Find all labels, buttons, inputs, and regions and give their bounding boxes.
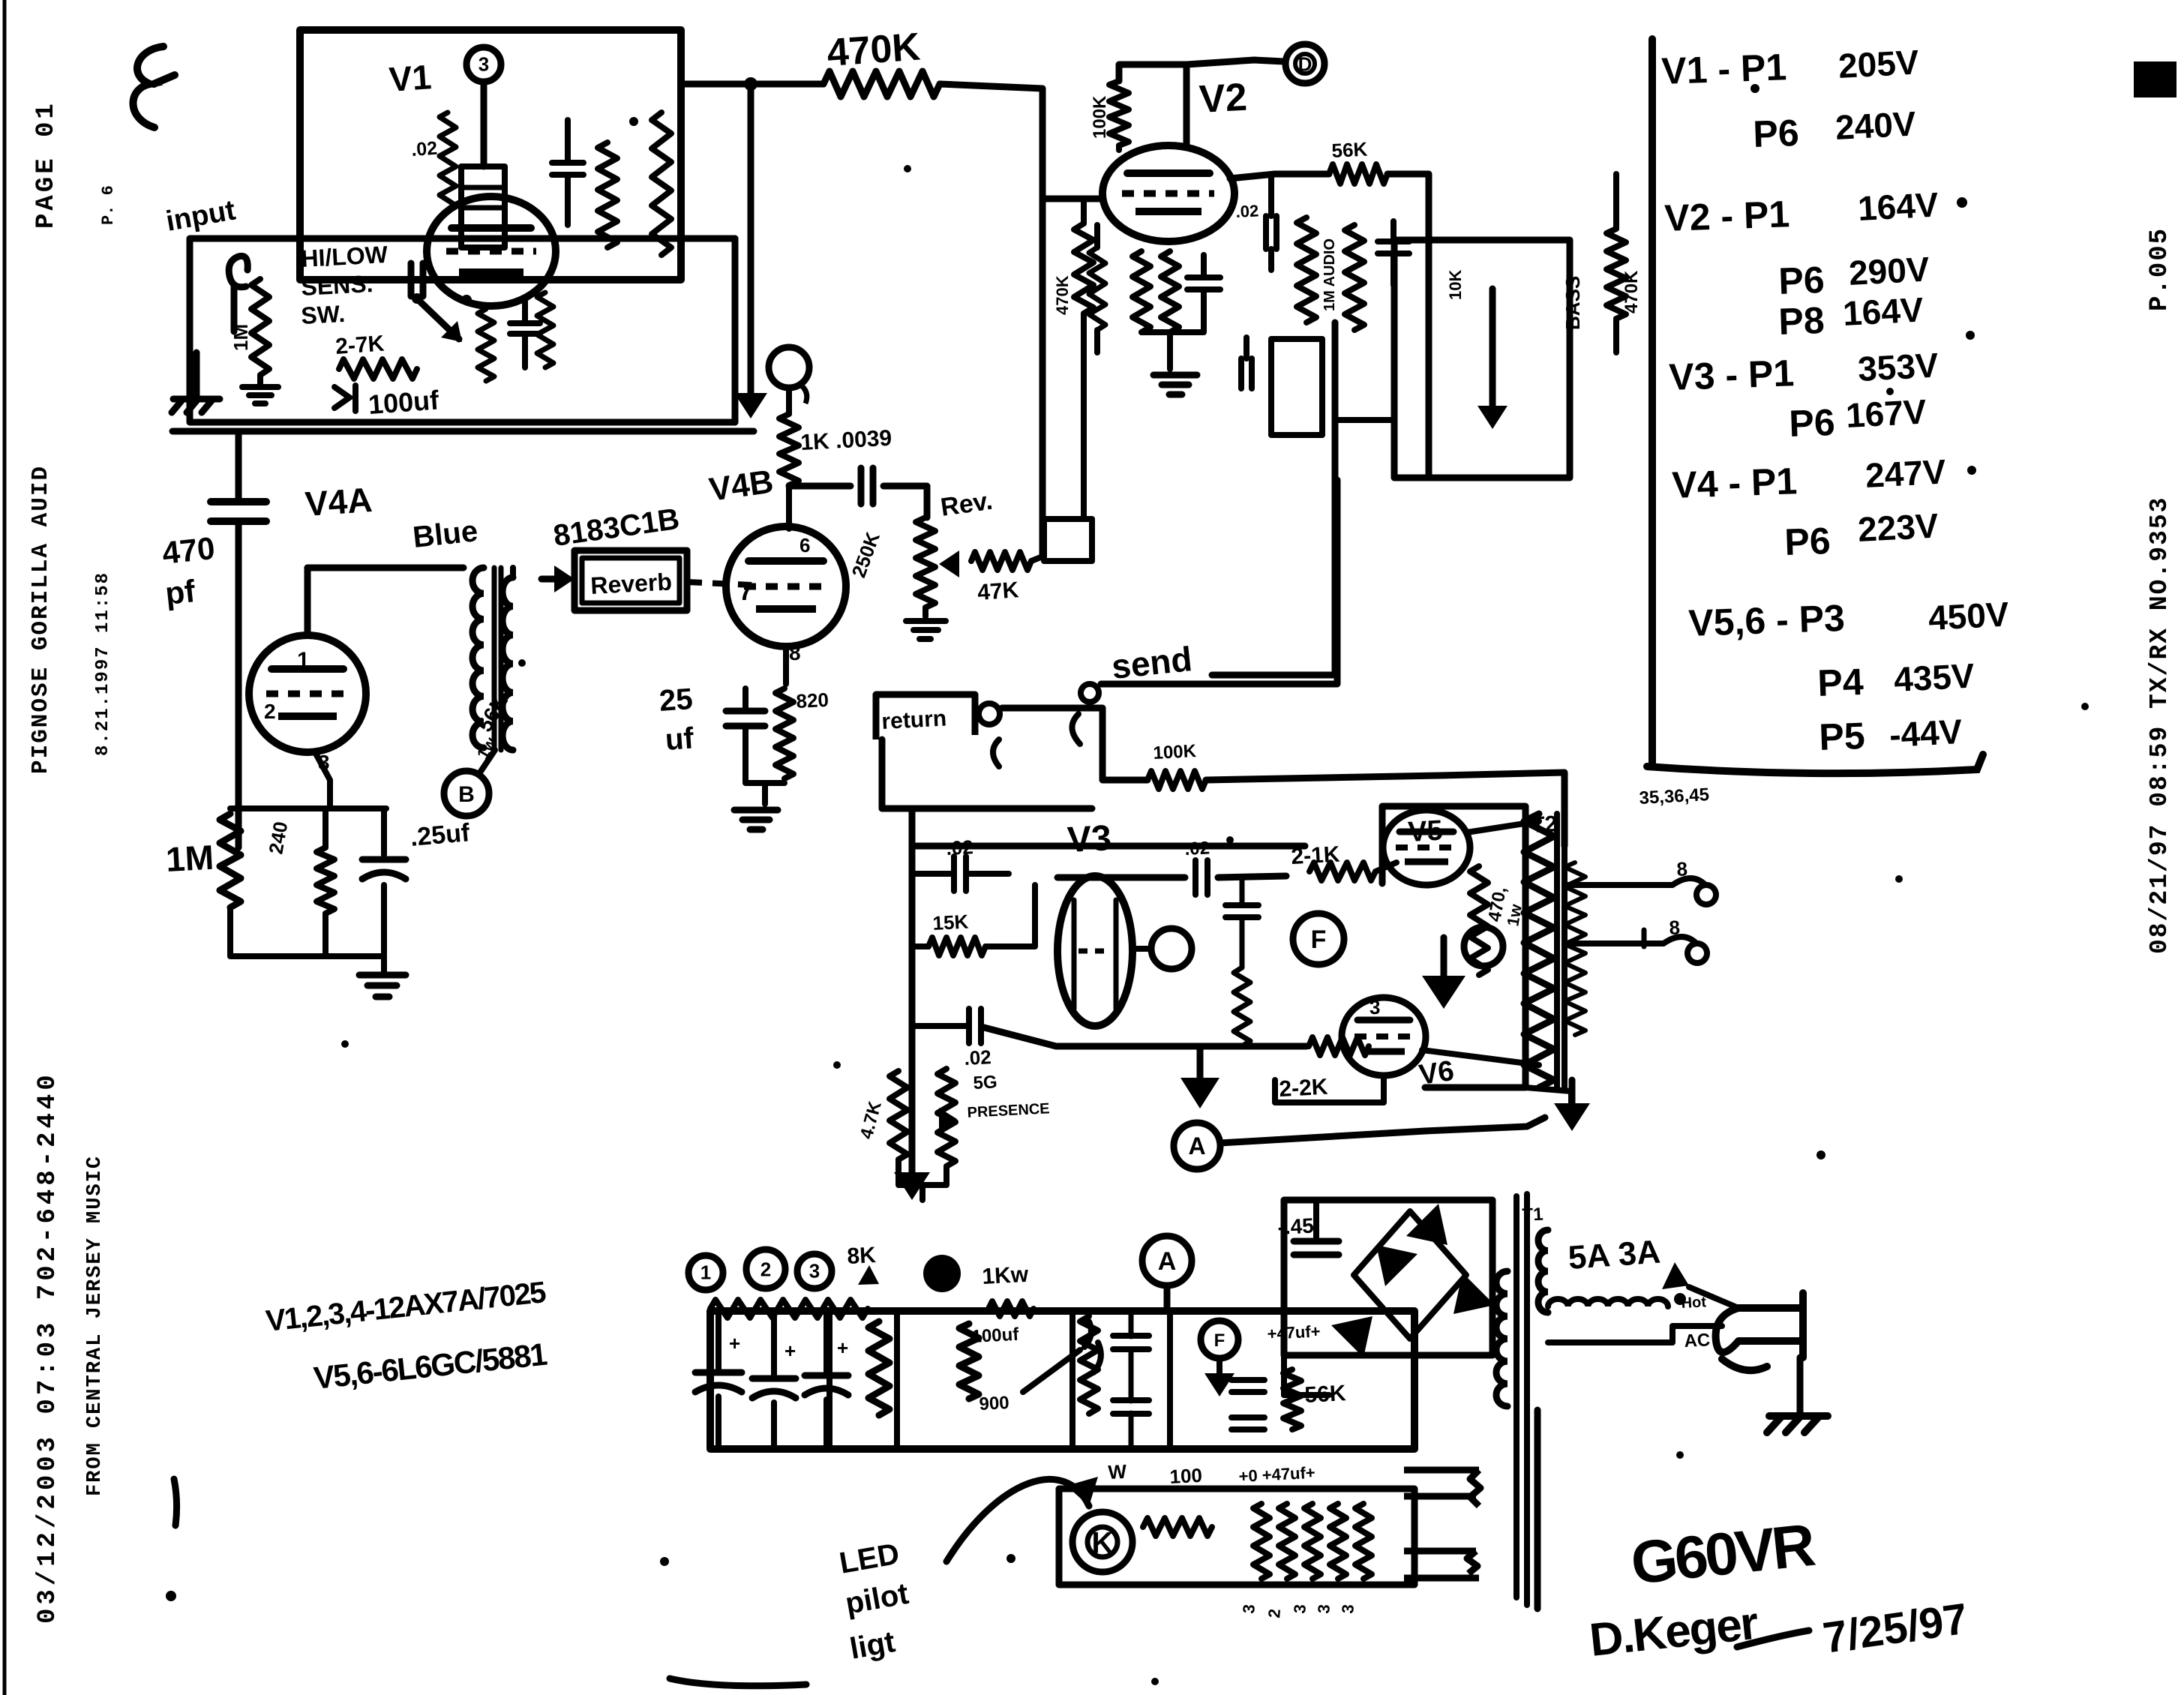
sens switch — [412, 293, 472, 342]
V4B cathode — [783, 646, 789, 684]
svg-text:return: return — [881, 706, 947, 733]
svg-text:-.45: -.45 — [1277, 1214, 1315, 1239]
filter divider 2 — [894, 1311, 900, 1447]
bottom scribble — [670, 1678, 806, 1686]
filter resistor R3 — [1080, 1316, 1098, 1414]
mid pot wiper — [1477, 289, 1507, 429]
svg-text:100K: 100K — [1090, 95, 1110, 139]
AC plug — [1716, 1293, 1803, 1370]
svg-text:F: F — [1311, 925, 1327, 954]
wire box to bridge — [1411, 1396, 1418, 1444]
svg-text:uf: uf — [664, 721, 695, 757]
page left border — [3, 0, 7, 1695]
transformer Blue label — [411, 514, 479, 554]
svg-text:PIGNOSE GORILLA AUID: PIGNOSE GORILLA AUID — [28, 465, 54, 774]
svg-text:+: + — [837, 1336, 848, 1359]
label T2 — [1531, 811, 1558, 838]
T1 primary winding — [1496, 1271, 1507, 1406]
resistor 1M v4a — [220, 814, 241, 907]
filter resistor R1 — [868, 1321, 889, 1415]
label 8K — [847, 1243, 879, 1285]
return jack — [979, 703, 1000, 766]
label 470K — [826, 25, 922, 75]
svg-text:08/21/97 08:59 TX/RX NO.: 08/21/97 08:59 TX/RX NO.9353 — [2146, 496, 2173, 955]
svg-text:2: 2 — [760, 1258, 771, 1280]
label pin6 v4b — [799, 534, 810, 556]
svg-text:3: 3 — [478, 52, 489, 75]
label 470/1w — [1484, 885, 1525, 928]
ground input jack (hatched) — [172, 399, 220, 412]
V1 pin 3 jack circle — [466, 47, 501, 166]
label 2-2K — [1279, 1075, 1329, 1102]
resistor 56K ps — [1283, 1369, 1301, 1429]
filter divider 1 — [826, 1311, 832, 1447]
label pin2 V4A — [264, 700, 276, 723]
reverb box — [574, 550, 687, 610]
doubler row resistor chain — [710, 1300, 1033, 1318]
svg-text:W: W — [1108, 1460, 1128, 1483]
wire K to tube — [786, 485, 792, 529]
input coupling box — [190, 238, 735, 422]
resistor rev mix — [1074, 199, 1093, 519]
tone pots box — [1394, 240, 1570, 478]
reverb arrow in — [541, 565, 574, 592]
svg-text:P.005: P.005 — [2146, 227, 2174, 311]
label 47K — [976, 577, 1020, 605]
filter divider 3 — [1069, 1311, 1075, 1447]
wire plate node to right — [1387, 174, 1429, 478]
wire v3 to v5 grid — [1057, 838, 1286, 895]
ground v4b — [734, 810, 778, 829]
svg-text:100: 100 — [1169, 1464, 1203, 1488]
V5 box — [1382, 806, 1525, 1087]
label 25uf — [658, 682, 695, 757]
T2 core — [1557, 814, 1564, 1087]
cap -.45 — [1277, 1200, 1339, 1255]
label 100uf — [367, 384, 441, 420]
wire tone out down — [1212, 322, 1335, 675]
V1 cathode network — [478, 300, 540, 381]
vol cap — [1241, 337, 1252, 388]
svg-text:pf: pf — [163, 573, 197, 611]
label AC — [1684, 1330, 1711, 1351]
resistor 100 pilot — [1143, 1518, 1212, 1536]
stray mark bottom-left — [166, 1479, 177, 1601]
wire presence gnd — [919, 1185, 925, 1200]
tube list line 2 — [312, 1336, 549, 1396]
label 8183C1B — [551, 502, 681, 553]
fax footer P.005 — [2146, 227, 2174, 311]
svg-text:V3 - P1: V3 - P1 — [1668, 352, 1795, 398]
svg-text:Hot: Hot — [1681, 1294, 1707, 1312]
svg-text:10K: 10K — [1446, 270, 1465, 300]
svg-text:B: B — [458, 782, 475, 807]
signature date — [1820, 1594, 1971, 1663]
screen resistor — [1470, 866, 1488, 975]
svg-text:FROM CENTRAL JERSEY MUSIC: FROM CENTRAL JERSEY MUSIC — [84, 1155, 106, 1496]
svg-text:HI/LOW: HI/LOW — [300, 241, 388, 272]
label .02 v3a — [946, 835, 974, 859]
label +47uf — [1267, 1321, 1321, 1343]
wire v3 left — [912, 808, 1092, 1183]
label 1M AUDIO — [1321, 238, 1338, 311]
filter cap pair right — [1113, 1311, 1149, 1447]
svg-text:8.21.1997 11:58: 8.21.1997 11:58 — [93, 571, 113, 756]
svg-text:P6: P6 — [1752, 112, 1799, 155]
svg-text:V4A: V4A — [304, 480, 373, 523]
svg-text:P. 6: P. 6 — [99, 185, 118, 225]
svg-text:3: 3 — [1338, 1603, 1357, 1614]
svg-text:35,36,45: 35,36,45 — [1639, 784, 1710, 808]
svg-text:205V: 205V — [1837, 42, 1920, 85]
label .25uf — [409, 818, 471, 852]
reverb transformer primary — [472, 568, 484, 748]
V1 plate resistor right — [598, 142, 617, 247]
svg-text:+0 +47uf+: +0 +47uf+ — [1238, 1463, 1315, 1486]
svg-text:.02: .02 — [1235, 201, 1259, 221]
heater resistor bank — [1253, 1504, 1372, 1579]
slope resistor — [1297, 217, 1316, 322]
svg-text:223V: 223V — [1857, 505, 1939, 549]
tube V1 — [427, 196, 556, 306]
mid resistor — [1345, 225, 1364, 330]
label 100K V2 — [1090, 95, 1110, 139]
return jack box — [876, 694, 975, 739]
screen arrow — [1422, 937, 1465, 1009]
svg-text:56K: 56K — [1304, 1381, 1347, 1408]
svg-text:3: 3 — [1369, 996, 1380, 1018]
cap .25uf — [362, 808, 406, 954]
svg-text:15K: 15K — [932, 910, 969, 934]
wire A ps down — [1164, 1285, 1171, 1308]
pin circle F2 — [1201, 1321, 1238, 1358]
label K .0039 — [800, 426, 892, 455]
svg-text:.02: .02 — [1184, 838, 1210, 859]
input resistor 1M — [251, 279, 269, 384]
V1 coupling cap — [411, 263, 423, 296]
svg-text:P6: P6 — [1783, 520, 1831, 563]
svg-text:1K .0039: 1K .0039 — [800, 426, 892, 455]
svg-text:1M: 1M — [229, 324, 252, 351]
ground arrow v3 — [894, 1172, 930, 1200]
svg-text:P4: P4 — [1816, 661, 1864, 704]
svg-text:AC: AC — [1684, 1330, 1711, 1351]
wire v6 grid — [984, 877, 1306, 1108]
T2 secondary winding — [1564, 862, 1585, 1035]
resistor 4.7K — [889, 1071, 907, 1159]
label pin3 V4A — [318, 751, 330, 774]
svg-text:3: 3 — [1314, 1603, 1333, 1614]
filter cap C3 — [805, 1311, 848, 1447]
wire return down — [882, 739, 912, 808]
pin circle F — [1293, 913, 1344, 964]
svg-text:V5: V5 — [1407, 815, 1444, 848]
label T1 — [1522, 1204, 1543, 1225]
heater box — [1059, 1489, 1414, 1585]
heater bank labels — [1239, 1603, 1357, 1618]
wire bottom bus — [172, 428, 754, 435]
label Rev. — [939, 487, 994, 522]
svg-text:V4 - P1: V4 - P1 — [1671, 460, 1798, 506]
svg-text:164V: 164V — [1857, 184, 1939, 228]
wire V2 plate out — [1230, 174, 1329, 178]
V4A pin1 wire — [307, 568, 463, 635]
svg-text:900: 900 — [979, 1393, 1009, 1414]
svg-text:100uf: 100uf — [367, 384, 441, 420]
label V6 — [1417, 1055, 1456, 1091]
resistor 56K plate — [1329, 164, 1387, 184]
rev pot wiper arrow — [939, 550, 959, 577]
resistor 470K tone — [1606, 174, 1626, 352]
label 10K MID — [1446, 270, 1465, 300]
label 5A 3A — [1567, 1234, 1661, 1276]
svg-text:V6: V6 — [1417, 1055, 1456, 1091]
svg-text:-44V: -44V — [1888, 712, 1963, 754]
wire v4a cathode bus — [230, 805, 386, 811]
pilot lamp K — [1072, 1512, 1132, 1572]
heater plug — [1404, 1470, 1480, 1578]
wire B+ down — [748, 84, 754, 409]
svg-text:2: 2 — [264, 700, 276, 723]
label 4.7K — [856, 1099, 886, 1141]
wire plug lower — [1548, 1326, 1722, 1342]
label pin1 V4A — [297, 648, 310, 673]
signature D Keger — [1587, 1597, 1809, 1666]
wire reverb to pin7 — [687, 582, 751, 585]
svg-text:Blue: Blue — [411, 514, 479, 554]
svg-text:V3: V3 — [1066, 818, 1112, 860]
fax footer PAGE 01 — [32, 100, 61, 229]
svg-text:V2: V2 — [1198, 76, 1249, 121]
label rev mix — [1053, 275, 1072, 315]
svg-text:P6: P6 — [1788, 401, 1835, 445]
wire v4a bottom — [230, 907, 384, 956]
label pin8 — [789, 641, 801, 664]
svg-text:Reverb: Reverb — [589, 568, 672, 599]
label .02 v3b — [964, 1045, 992, 1069]
ground rev pot — [906, 621, 946, 639]
V2 cathode resistor — [1132, 251, 1150, 332]
wire input box bottom — [193, 352, 200, 397]
label V3 — [1066, 818, 1112, 860]
label Hot — [1681, 1294, 1707, 1312]
wire 470K to V2 grid — [940, 84, 1042, 556]
svg-text:240V: 240V — [1834, 103, 1917, 147]
fax header 03/12/2003 07:03 702-648-2440 — [34, 1071, 62, 1624]
fuse chain — [1548, 1262, 1738, 1308]
tube V4B — [726, 526, 846, 646]
V1 plate ladder — [461, 166, 505, 247]
paper specks — [341, 84, 2089, 1685]
svg-text:V5,6 - P3: V5,6 - P3 — [1687, 597, 1845, 644]
label Reverb — [589, 568, 672, 599]
reverb transformer core — [494, 568, 501, 750]
resistor 2.2K — [1309, 1037, 1369, 1055]
label 56K B — [472, 691, 512, 762]
wire fx to v5 grid — [1206, 772, 1564, 846]
fax footer PIGNOSE GORILLA AUID — [28, 465, 54, 774]
label send — [1110, 639, 1194, 686]
label LED pilot ligt — [837, 1537, 911, 1666]
label input — [163, 194, 238, 238]
svg-text:450V: 450V — [1927, 594, 2010, 637]
svg-text:5G: 5G — [973, 1072, 997, 1093]
label 1M — [165, 838, 215, 879]
svg-text:.02: .02 — [946, 835, 974, 859]
svg-text:A: A — [1158, 1247, 1177, 1276]
wire return right — [1002, 708, 1147, 780]
label .02 (V1) — [410, 138, 438, 160]
label V1 — [388, 57, 433, 99]
voltage table border — [1647, 39, 1983, 773]
voltage table text — [1660, 42, 2010, 758]
pot circle 8 — [923, 1255, 961, 1292]
svg-text:1Kw: 1Kw — [982, 1262, 1030, 1289]
jack circle A ps — [1142, 1236, 1192, 1285]
wire tone box bottom — [1335, 417, 1394, 423]
ground AC — [1767, 1357, 1828, 1432]
svg-text:2-2K: 2-2K — [1279, 1075, 1329, 1102]
tube V4A — [249, 635, 366, 752]
label 100K fx — [1153, 741, 1197, 763]
fax footer 8.21.1997 11:58 — [93, 571, 113, 756]
fax footer P.6 — [99, 185, 118, 225]
V1 cathode resistor 15K — [537, 292, 553, 367]
label 470pf — [160, 530, 217, 611]
label 4W — [1108, 1460, 1128, 1483]
svg-text:SW.: SW. — [300, 300, 345, 329]
label 240 — [264, 820, 292, 856]
V1 screen resistor — [652, 112, 671, 255]
label HI/LOW SENS. SW. — [300, 241, 388, 329]
ground V2 cathode — [1153, 375, 1197, 394]
label V5 — [1407, 815, 1444, 848]
tube list line 1 — [264, 1276, 547, 1338]
label 820 — [796, 688, 829, 712]
svg-text:+47uf+: +47uf+ — [1267, 1321, 1321, 1343]
wire v3 top — [912, 843, 1305, 850]
input jack — [229, 256, 247, 331]
resistor 100K fx — [1147, 771, 1206, 789]
pot circle 1 — [688, 1255, 723, 1290]
speaker jack 2 — [1584, 916, 1707, 963]
wire V1 box to 470K — [681, 81, 823, 88]
wire V2 grid tap — [1042, 196, 1102, 202]
pot Rev 250K — [916, 517, 935, 616]
label 1M input — [229, 324, 252, 351]
bridge rectifier box — [1284, 1200, 1492, 1395]
svg-text:P5: P5 — [1818, 715, 1865, 758]
jack circle B — [444, 750, 495, 816]
label 56K — [1331, 138, 1368, 162]
resistor 470K — [823, 71, 940, 97]
cap .02 v3a — [912, 856, 1009, 891]
svg-text:6: 6 — [799, 534, 810, 556]
svg-text:2-7K: 2-7K — [334, 331, 385, 359]
svg-text:2-1K: 2-1K — [1291, 842, 1341, 869]
wire T2 out bottom — [1525, 885, 1584, 1108]
fax stamp square — [2134, 61, 2176, 97]
svg-text:47K: 47K — [976, 577, 1020, 605]
jack circle A v3 — [1174, 1123, 1220, 1169]
label 5G PRESENCE — [967, 1072, 1050, 1121]
T1 core — [1516, 1194, 1537, 1609]
label V4B — [707, 463, 776, 508]
label 15K — [932, 910, 969, 934]
svg-text:T1: T1 — [1522, 1204, 1543, 1225]
T1 secondary winding — [1538, 1230, 1548, 1312]
svg-text:167V: 167V — [1845, 391, 1927, 435]
V1 right cap — [552, 120, 583, 225]
svg-text:.02: .02 — [410, 138, 438, 160]
label BASS — [1561, 276, 1584, 330]
label 56K ps — [1304, 1381, 1347, 1408]
label 450V tap — [1639, 784, 1710, 808]
label pin3 v6 — [1369, 996, 1380, 1018]
svg-text:470K: 470K — [1053, 275, 1072, 315]
label pin7 — [739, 577, 753, 606]
svg-text:820: 820 — [796, 688, 829, 712]
svg-text:.02: .02 — [964, 1045, 992, 1069]
label 100 pilot — [1169, 1464, 1203, 1488]
ground under input resistor — [242, 387, 278, 403]
bridge rectifier diamond — [1354, 1211, 1466, 1339]
tube V3 — [1057, 876, 1132, 1026]
jack circle 6 — [769, 347, 809, 403]
svg-text:+: + — [784, 1339, 796, 1362]
filter cap C4 — [1231, 1380, 1264, 1429]
svg-text:03/12/2003 07:03 702-648-2: 03/12/2003 07:03 702-648-2440 — [34, 1071, 62, 1624]
vol pot box — [1271, 339, 1322, 435]
svg-text:100K: 100K — [1153, 741, 1197, 763]
tube V2 — [1102, 145, 1234, 241]
label V2 — [1198, 76, 1249, 121]
reverb transformer secondary — [502, 568, 513, 750]
svg-text:P8: P8 — [1777, 299, 1825, 343]
svg-text:290V: 290V — [1848, 249, 1930, 292]
pin circle v3 plate — [1132, 928, 1192, 969]
svg-text:3: 3 — [1239, 1603, 1258, 1614]
wire V2 plate to D jack — [1119, 60, 1284, 146]
fax footer TX/RX NO.9353 08:59 08/21/97 — [2146, 496, 2173, 955]
rev junction box — [1044, 519, 1092, 561]
resistor 240 — [316, 808, 334, 913]
svg-text:BASS: BASS — [1561, 276, 1584, 330]
treble cap — [1266, 174, 1276, 270]
bridge diode 2 — [1453, 1273, 1495, 1314]
label 2-1K — [1291, 842, 1341, 869]
presence pot — [898, 1069, 957, 1185]
label 2-7K — [334, 331, 385, 359]
filter cap C1 — [695, 1311, 742, 1447]
tube V6 — [1342, 997, 1426, 1075]
resistor 47K wiper — [971, 552, 1042, 570]
resistor 15K v3 — [912, 885, 1035, 955]
filter cap C2 — [752, 1311, 796, 1447]
svg-text:1M AUDIO: 1M AUDIO — [1321, 238, 1338, 311]
main filter box — [710, 1311, 1414, 1449]
svg-text:164V: 164V — [1842, 289, 1924, 333]
send jack — [1072, 684, 1099, 744]
svg-text:8: 8 — [1676, 857, 1688, 880]
bridge diode 3 — [1376, 1245, 1417, 1286]
V2 plate resistor 100K — [1109, 81, 1129, 150]
svg-text:+: + — [729, 1332, 740, 1354]
fax header FROM CENTRAL JERSEY MUSIC — [84, 1155, 106, 1496]
svg-text:353V: 353V — [1857, 345, 1939, 388]
svg-text:V1: V1 — [388, 57, 433, 99]
V1 outer box — [300, 30, 681, 280]
